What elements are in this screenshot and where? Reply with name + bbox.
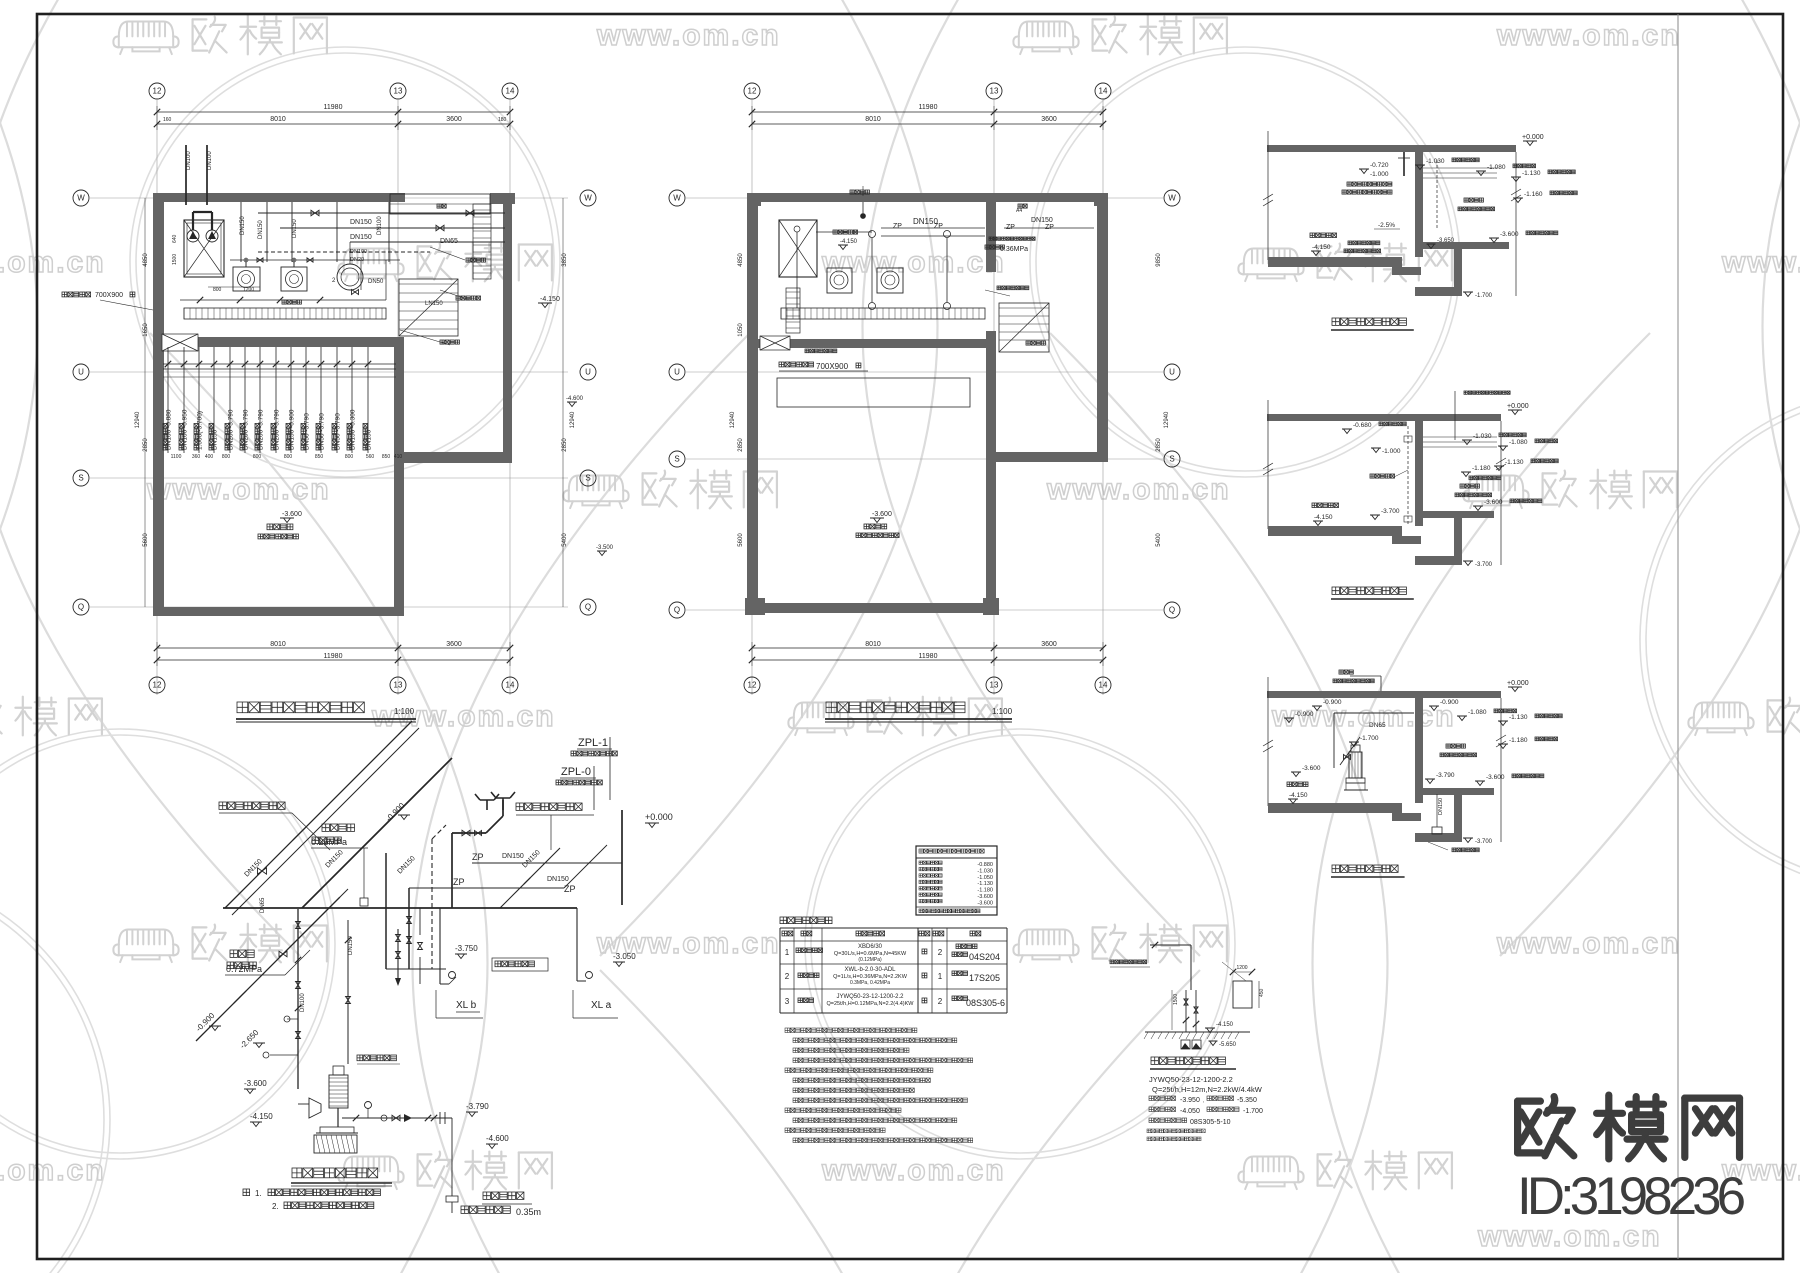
- svg-text:700X900: 700X900: [816, 362, 849, 371]
- iso labels upper left: [219, 802, 330, 850]
- svg-text:ZP: ZP: [1045, 224, 1054, 231]
- iso pressure line to pump: [340, 889, 351, 1064]
- svg-text:1:100: 1:100: [394, 707, 415, 716]
- svg-text:-0.900: -0.900: [1440, 699, 1459, 706]
- section title: [1331, 865, 1405, 877]
- svg-text:JYWQ50-23-12-1200-2.2: JYWQ50-23-12-1200-2.2: [836, 994, 904, 1000]
- svg-text:DN100: DN100: [186, 151, 192, 170]
- svg-text:ID:3198236: ID:3198236: [1517, 1167, 1745, 1226]
- iso main horizontal pipe: [223, 907, 577, 909]
- plan1 drainage trench: [184, 308, 386, 319]
- iso level -0.900 upper: [384, 801, 410, 824]
- iso right hydrant label: [516, 803, 594, 850]
- svg-text:-3.600: -3.600: [1484, 499, 1503, 506]
- svg-text:1.: 1.: [255, 1189, 262, 1198]
- svg-text:U: U: [78, 368, 84, 377]
- svg-text:DN150: DN150: [292, 219, 298, 238]
- svg-text:ZP: ZP: [1006, 224, 1015, 231]
- svg-text:0.35m: 0.35m: [516, 1207, 541, 1217]
- section pit: [1415, 788, 1462, 842]
- iso title: [291, 1168, 392, 1186]
- svg-text:400: 400: [205, 454, 214, 460]
- svg-text:-1.030: -1.030: [1473, 433, 1492, 440]
- svg-text:11980: 11980: [324, 653, 343, 660]
- svg-text:12940: 12940: [135, 411, 141, 428]
- svg-text:14: 14: [506, 87, 515, 96]
- svg-text:13: 13: [394, 681, 403, 690]
- svg-text:-1.080: -1.080: [1468, 709, 1487, 716]
- svg-text:-2.5%: -2.5%: [1378, 222, 1395, 229]
- svg-text:-3.950: -3.950: [1180, 1097, 1200, 1104]
- plan2 suction pipes: [794, 226, 951, 310]
- plan2 top dimension lines: [749, 104, 1106, 130]
- svg-text:DN150: DN150: [350, 219, 372, 226]
- svg-text:12: 12: [153, 681, 162, 690]
- svg-text:360: 360: [192, 454, 201, 460]
- svg-text:DN150: DN150: [1031, 217, 1053, 224]
- svg-text:3600: 3600: [446, 116, 462, 123]
- sump title: [1150, 1057, 1236, 1069]
- plan2 pressure label: [985, 237, 1035, 253]
- iso diagonal supply left: [225, 721, 419, 915]
- section left boundary: [1263, 400, 1273, 529]
- svg-text:-3.600: -3.600: [282, 511, 302, 518]
- svg-text:Q: Q: [1169, 606, 1175, 615]
- svg-text:-1.030: -1.030: [977, 868, 993, 874]
- svg-text:3600: 3600: [1041, 116, 1057, 123]
- plan2 drainage trench: [781, 308, 985, 319]
- plan1 air shaft ladder: [473, 204, 491, 279]
- svg-text:-4.150: -4.150: [540, 296, 560, 303]
- iso pressure switch label: [311, 824, 368, 906]
- plan2 pump unit 2: [877, 268, 903, 293]
- svg-text:-4.050: -4.050: [1180, 1108, 1200, 1115]
- plan1 side dimension labels: [135, 198, 576, 607]
- svg-text:-3.600: -3.600: [1302, 765, 1321, 772]
- sump diagram pipes: [1150, 942, 1199, 1032]
- svg-text:XWL-b-2.0-30-ADL: XWL-b-2.0-30-ADL: [844, 967, 896, 973]
- plan1 level -4.600 east: [566, 396, 584, 407]
- plan1 top wall: [153, 193, 515, 214]
- iso pump assembly: [298, 1066, 358, 1153]
- section right slab: [1423, 242, 1509, 249]
- plan1 water tank: [184, 220, 224, 277]
- svg-text:www.om.cn: www.om.cn: [371, 700, 556, 733]
- notes paragraph: [785, 1028, 973, 1143]
- iso stab pump label: [225, 950, 310, 975]
- svg-text:-1.130: -1.130: [1509, 714, 1528, 721]
- section3 pump symbol: [1344, 745, 1368, 790]
- plan1 extra pipes upper room: [180, 242, 400, 303]
- svg-text:2850: 2850: [1156, 438, 1162, 452]
- svg-text:-4.150: -4.150: [1289, 792, 1308, 799]
- iso level -3.600: [244, 1079, 267, 1094]
- watermark logo rows: [113, 21, 178, 54]
- svg-text:-3.790: -3.790: [466, 1102, 489, 1111]
- svg-text:DN100: DN100: [377, 216, 383, 235]
- svg-text:www.om.cn: www.om.cn: [596, 19, 781, 52]
- iso ZPL-0 label: [556, 766, 602, 810]
- svg-text:12: 12: [748, 87, 757, 96]
- section zero level: [1507, 403, 1529, 415]
- svg-text:12940: 12940: [570, 411, 576, 428]
- svg-text:DN150: DN150: [1438, 798, 1444, 815]
- plan2 sump rectangle: [777, 378, 970, 407]
- plan2 foot valve label: [805, 349, 837, 353]
- svg-text:5400: 5400: [1156, 533, 1162, 547]
- svg-text:-4.150: -4.150: [1312, 244, 1331, 251]
- svg-text:160: 160: [163, 117, 172, 123]
- svg-text:1500: 1500: [172, 254, 178, 265]
- svg-text:W: W: [1168, 194, 1176, 203]
- svg-text:-1.050: -1.050: [977, 875, 993, 881]
- svg-text:+0.000: +0.000: [645, 812, 673, 822]
- svg-text:3600: 3600: [446, 641, 462, 648]
- svg-text:,: ,: [1203, 1098, 1204, 1104]
- svg-text:DN65: DN65: [1369, 722, 1386, 729]
- iso DN150 diagonal labels: [243, 849, 541, 1012]
- svg-text:U: U: [585, 368, 591, 377]
- plan2 ladder: [786, 288, 800, 333]
- plan1 bottom wall: [153, 607, 404, 616]
- svg-text:2: 2: [938, 997, 943, 1006]
- svg-text:-1.080: -1.080: [1509, 439, 1528, 446]
- plan1 pump unit 1: [233, 258, 260, 291]
- svg-text:11980: 11980: [324, 104, 343, 111]
- svg-text:700X900: 700X900: [95, 292, 123, 299]
- section pit bottom level: [1463, 292, 1493, 299]
- plan1 tank dims: [172, 234, 260, 293]
- svg-text:Q: Q: [674, 606, 680, 615]
- section middle wall: [1415, 421, 1423, 526]
- svg-text:11980: 11980: [919, 653, 938, 660]
- section left boundary: [1263, 131, 1273, 260]
- section right slab: [1423, 511, 1494, 518]
- svg-text:-1.030: -1.030: [1426, 158, 1445, 165]
- svg-text:-3.790: -3.790: [1436, 772, 1455, 779]
- svg-text:13: 13: [990, 681, 999, 690]
- svg-text:4850: 4850: [143, 253, 149, 267]
- svg-text:13: 13: [990, 87, 999, 96]
- svg-text:1500: 1500: [1173, 994, 1179, 1005]
- svg-text:5600: 5600: [738, 533, 744, 547]
- svg-text:-3.650: -3.650: [1437, 238, 1455, 244]
- sump inflow label: [1110, 960, 1150, 967]
- iso top right pipes: [452, 792, 622, 908]
- svg-text:-1.000: -1.000: [1382, 448, 1401, 455]
- plan1 right wall upper: [503, 202, 512, 463]
- plan1 pump unit 2: [281, 258, 307, 291]
- sump data lines: [1147, 1075, 1263, 1141]
- plan2 grid axes: [669, 83, 1180, 695]
- svg-text:+0.000: +0.000: [1507, 403, 1529, 410]
- svg-text:-1.130: -1.130: [1505, 459, 1524, 466]
- svg-text:DN100: DN100: [300, 993, 306, 1012]
- svg-text:-1.130: -1.130: [1522, 170, 1541, 177]
- svg-text:850: 850: [315, 454, 324, 460]
- plan1 tank pumps: [186, 145, 218, 242]
- svg-text:-0.680: -0.680: [1353, 422, 1372, 429]
- svg-text:1200: 1200: [243, 287, 254, 293]
- svg-text:S: S: [674, 455, 679, 464]
- plan1 bottom dimension lines: [154, 641, 513, 666]
- iso diagonal lower-left: [196, 897, 340, 1041]
- info box pool levels: [916, 846, 997, 915]
- svg-text:JYWQ50-23-12-1200-2.2: JYWQ50-23-12-1200-2.2: [1149, 1075, 1233, 1084]
- svg-text:08S305-6: 08S305-6: [966, 998, 1005, 1008]
- svg-text:2850: 2850: [738, 438, 744, 452]
- svg-text:+0.000: +0.000: [1522, 134, 1544, 141]
- plan1 top pipes: [240, 202, 505, 307]
- svg-text:08S305-5-10: 08S305-5-10: [1190, 1119, 1231, 1126]
- plan1 level mark fire pool: [258, 511, 302, 539]
- svg-text:1050: 1050: [738, 323, 744, 337]
- plan2 title: [825, 702, 1013, 722]
- svg-text:www.om.cn: www.om.cn: [1496, 19, 1681, 52]
- section middle wall: [1415, 152, 1423, 257]
- iso diagonal supply mid: [302, 758, 452, 908]
- plan1 title: [236, 702, 416, 722]
- svg-text:-1.160: -1.160: [1524, 191, 1543, 198]
- svg-text:180: 180: [498, 117, 507, 123]
- svg-text:www.om.cn: www.om.cn: [1496, 927, 1681, 960]
- section pit bottom level: [1463, 838, 1493, 845]
- svg-text:3600: 3600: [1041, 641, 1057, 648]
- svg-text:1200: 1200: [1236, 965, 1247, 971]
- section zero level: [1507, 680, 1529, 692]
- plan2 suction inlet label: [985, 286, 1029, 296]
- svg-text:-3.600: -3.600: [1500, 231, 1519, 238]
- equipment table: [780, 928, 1007, 1013]
- iso level -4.600: [486, 1134, 509, 1149]
- section1 annotations: [1310, 152, 1577, 256]
- svg-text:13: 13: [394, 87, 403, 96]
- plan2 bottom wall: [745, 598, 999, 615]
- svg-text:ZP: ZP: [564, 884, 576, 894]
- plan2 pump unit 1: [827, 268, 852, 293]
- svg-text:DN100: DN100: [207, 151, 213, 170]
- iso level -3.790: [466, 1102, 489, 1117]
- svg-text:-4.150: -4.150: [1216, 1022, 1234, 1028]
- svg-text:-3.700: -3.700: [1475, 562, 1493, 568]
- plan1 grid axes: [73, 83, 596, 695]
- svg-text:www.om.cn: www.om.cn: [821, 246, 1006, 279]
- section zero level: [1522, 134, 1544, 146]
- svg-text:2.: 2.: [272, 1202, 279, 1211]
- svg-text:-0.900: -0.900: [1295, 711, 1314, 718]
- iso dashed riser: [432, 825, 446, 969]
- plan2 pump pit label: [833, 230, 858, 250]
- svg-text:DN65: DN65: [440, 238, 458, 245]
- svg-text:Q: Q: [78, 603, 84, 612]
- section2 annotations: [1312, 391, 1558, 526]
- svg-text:-4.600: -4.600: [486, 1134, 509, 1143]
- sump ground line: [1144, 1032, 1250, 1039]
- svg-text:-3.600: -3.600: [977, 894, 993, 900]
- svg-text:1650: 1650: [143, 323, 149, 337]
- svg-text:-0.720: -0.720: [1370, 162, 1389, 169]
- plan1 level -4.150: [538, 296, 560, 308]
- iso level -2.650: [238, 1028, 265, 1051]
- svg-text:1: 1: [938, 972, 943, 981]
- plan1 riser pipes with labels: [163, 347, 396, 453]
- plan1 fengjing label: [437, 204, 446, 208]
- big logo text: [1518, 1095, 1740, 1159]
- svg-text:Q=25t/h,H=12m,N=2.2kW/4.4kW: Q=25t/h,H=12m,N=2.2kW/4.4kW: [1152, 1085, 1263, 1094]
- svg-text:XL b: XL b: [456, 1000, 477, 1011]
- section3 annotations: [1284, 670, 1562, 852]
- svg-text:2: 2: [785, 972, 790, 981]
- plan1 stair: [399, 279, 458, 336]
- svg-text:450: 450: [1259, 988, 1265, 997]
- svg-text:-3.700: -3.700: [1475, 839, 1493, 845]
- iso ZPL-1 label: [571, 737, 617, 800]
- iso backflow label: [461, 1192, 541, 1217]
- svg-text:-3.600: -3.600: [977, 900, 993, 906]
- iso manifold pipes: [386, 853, 446, 986]
- svg-text:2850: 2850: [143, 438, 149, 452]
- svg-text:-0.880: -0.880: [977, 862, 993, 868]
- section pit bottom level: [1463, 561, 1493, 568]
- section right boundary: [1511, 152, 1521, 296]
- section left floor slab: [1268, 803, 1421, 821]
- section top slab: [1267, 691, 1501, 698]
- svg-text:U: U: [674, 368, 680, 377]
- svg-text:1:100: 1:100: [992, 707, 1013, 716]
- svg-text:850: 850: [382, 454, 391, 460]
- equipment table heading: [780, 917, 832, 924]
- section title: [1331, 587, 1414, 599]
- plan1 riser bottom dims: [171, 454, 403, 460]
- section right boundary: [1496, 421, 1506, 565]
- svg-text:800: 800: [213, 287, 222, 293]
- iso XL b riser: [436, 908, 483, 1018]
- svg-text:-1.130: -1.130: [977, 881, 993, 887]
- svg-text:S: S: [585, 474, 590, 483]
- svg-text:3: 3: [785, 997, 790, 1006]
- section left floor slab: [1268, 257, 1421, 275]
- plan1 label 700x900: [62, 292, 153, 310]
- svg-text:-1.700: -1.700: [1243, 1108, 1263, 1115]
- sump pumps: [1181, 1040, 1237, 1049]
- plan2 top wall: [747, 193, 1108, 206]
- plan1 pump unit 3: [332, 264, 363, 290]
- svg-text:04S204: 04S204: [969, 952, 1000, 962]
- iso stab pump outlet label: [492, 958, 548, 971]
- svg-text:-3.600: -3.600: [244, 1079, 267, 1088]
- svg-text:410: 410: [394, 454, 403, 460]
- svg-text:11980: 11980: [919, 104, 938, 111]
- plan1 lower-right wall: [394, 337, 404, 616]
- svg-text:XL a: XL a: [591, 1000, 612, 1011]
- svg-text:S: S: [1169, 455, 1174, 464]
- svg-text:-3.050: -3.050: [613, 952, 636, 961]
- section right boundary: [1496, 698, 1506, 842]
- svg-text:ZP: ZP: [893, 223, 902, 230]
- svg-text:14: 14: [506, 681, 515, 690]
- svg-text:12: 12: [153, 87, 162, 96]
- svg-text:8010: 8010: [270, 116, 286, 123]
- svg-text:640: 640: [172, 234, 178, 243]
- svg-text:-1.180: -1.180: [977, 888, 993, 894]
- svg-text:8010: 8010: [270, 641, 286, 648]
- svg-text:ZPL-0: ZPL-0: [561, 766, 591, 778]
- iso XL a riser: [573, 908, 618, 1018]
- iso level -0.900 lower: [194, 1011, 221, 1034]
- svg-text:www.om.cn: www.om.cn: [1721, 246, 1800, 279]
- svg-text:17S205: 17S205: [969, 973, 1000, 983]
- section pit: [1415, 511, 1462, 565]
- svg-text:-4.150: -4.150: [1314, 514, 1333, 521]
- svg-text:ZP: ZP: [472, 852, 484, 862]
- plan2 middle wall: [747, 339, 996, 348]
- svg-text:14: 14: [1099, 681, 1108, 690]
- svg-text:DN100: DN100: [350, 249, 367, 255]
- plan1 left wall: [153, 193, 164, 616]
- svg-text:-1.700: -1.700: [1475, 293, 1493, 299]
- svg-text:1: 1: [785, 948, 790, 957]
- plan2 wall segment east: [996, 452, 1108, 462]
- svg-text:-3.600: -3.600: [1486, 774, 1505, 781]
- plan2 right wall: [1097, 202, 1108, 460]
- svg-text:-5.350: -5.350: [1237, 1097, 1257, 1104]
- svg-text:DN150: DN150: [258, 220, 264, 239]
- svg-text:-1.180: -1.180: [1509, 737, 1528, 744]
- section middle wall: [1415, 698, 1423, 803]
- iso right diagonal: [500, 848, 560, 908]
- svg-text:0.3MPa, 0.42MPa: 0.3MPa, 0.42MPa: [850, 980, 890, 986]
- plan2 left wall: [747, 193, 758, 613]
- svg-text:+0.000: +0.000: [1507, 680, 1529, 687]
- svg-text:A4: A4: [1016, 208, 1022, 214]
- big logo id: [1517, 1167, 1745, 1226]
- iso pump discharge line: [342, 1102, 452, 1125]
- plan2 steel plate label: [779, 362, 868, 371]
- section top slab: [1267, 414, 1501, 421]
- section left boundary: [1263, 677, 1273, 806]
- svg-text:800: 800: [222, 454, 231, 460]
- iso ZP line upper: [472, 852, 622, 863]
- sump level -4.150: [1205, 1022, 1234, 1033]
- svg-text:-1.180: -1.180: [1472, 465, 1491, 472]
- svg-text:8010: 8010: [865, 116, 881, 123]
- plan1 door opening X: [162, 334, 198, 351]
- iso ZP line lower: [409, 845, 607, 894]
- svg-text:12: 12: [748, 681, 757, 690]
- svg-text:800: 800: [345, 454, 354, 460]
- plan2 side dimension labels: [730, 253, 1170, 547]
- section title: [1331, 318, 1414, 330]
- plan1 level -3.500 east: [596, 545, 614, 556]
- iso booster pump label: [357, 1055, 400, 1064]
- plan2 stair: [999, 303, 1049, 352]
- plan2 inner vertical wall: [986, 202, 996, 613]
- svg-text:800: 800: [284, 454, 293, 460]
- svg-text:1100: 1100: [171, 454, 182, 460]
- svg-text:W: W: [584, 194, 592, 203]
- svg-text:-3.500: -3.500: [596, 545, 614, 551]
- section left floor slab: [1268, 526, 1421, 544]
- svg-text:DN65: DN65: [260, 897, 266, 913]
- svg-text:12940: 12940: [1164, 411, 1170, 428]
- svg-text:8010: 8010: [865, 641, 881, 648]
- plan2 door opening X: [760, 336, 790, 350]
- svg-text:www.om.cn: www.om.cn: [0, 1154, 106, 1187]
- iso level -4.150: [250, 1112, 273, 1127]
- svg-text:-1.000: -1.000: [1370, 171, 1389, 178]
- svg-text:ZPL-1: ZPL-1: [578, 737, 608, 749]
- svg-text:S: S: [78, 474, 83, 483]
